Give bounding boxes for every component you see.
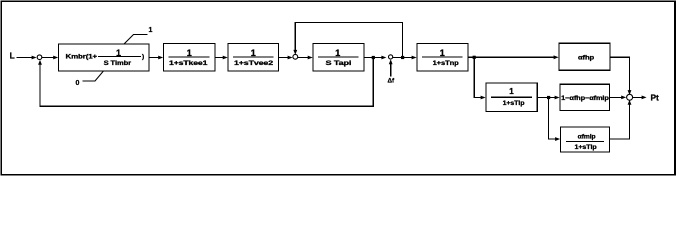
svg-text:1+sTvee2: 1+sTvee2 xyxy=(234,60,274,67)
svg-text:S Tapi: S Tapi xyxy=(326,60,352,67)
bypass wire upper loop to S2 xyxy=(295,22,402,57)
wire block INT to summer S3 xyxy=(364,57,383,59)
block MID 1-afhp-afmlp xyxy=(560,84,610,110)
summer S3 xyxy=(389,55,393,59)
wire S1 to block PI xyxy=(42,57,55,59)
svg-text:S Timbr: S Timbr xyxy=(104,60,132,67)
block PI Kmbr(1+1/(S Timbr)) xyxy=(59,44,150,71)
summer S4 xyxy=(627,94,633,100)
junction dot C xyxy=(473,56,476,59)
wire block IP to block MID xyxy=(537,97,556,99)
junction dot B xyxy=(401,56,404,59)
wire block LP to summer S4 xyxy=(610,104,630,139)
wire S2 to block INT xyxy=(298,57,309,59)
block LP afmlp/(1+sTlp) xyxy=(561,127,610,152)
upper limit marker, label 1 xyxy=(124,27,153,44)
svg-text:L: L xyxy=(10,51,15,61)
svg-text:αfmlp: αfmlp xyxy=(578,134,596,141)
svg-text:Kmbr(1+: Kmbr(1+ xyxy=(66,53,98,60)
wire block T2 to summer S2 xyxy=(279,57,290,59)
node Df input arrow xyxy=(390,63,392,76)
lower limit marker, label 0 xyxy=(76,71,104,87)
junction dot D xyxy=(547,96,550,99)
border frame xyxy=(0,0,675,175)
wire block AFHP to summer S4 xyxy=(610,57,630,90)
block T2 1/(1+sTvee2) xyxy=(228,44,279,72)
svg-text:1+sTkee1: 1+sTkee1 xyxy=(169,60,208,67)
junction dot A xyxy=(372,56,375,59)
svg-text:1−αfhp−αfmlp: 1−αfhp−αfmlp xyxy=(561,95,609,102)
wire S3 to block HP xyxy=(393,57,413,59)
svg-text:1+sTlp: 1+sTlp xyxy=(503,100,525,107)
svg-text:1+sTlp: 1+sTlp xyxy=(575,144,597,151)
wire block T1 to block T2 xyxy=(215,57,224,59)
svg-text:1: 1 xyxy=(116,48,121,58)
summer S1 xyxy=(37,55,42,60)
wire block MID to summer S4 xyxy=(610,96,623,98)
svg-text:1+sTnp: 1+sTnp xyxy=(433,60,459,67)
svg-text:Pt: Pt xyxy=(651,92,660,102)
svg-text:αfhp: αfhp xyxy=(578,55,594,62)
svg-text:1: 1 xyxy=(149,27,153,34)
block T1 1/(1+sTkee1) xyxy=(164,44,216,72)
wire junction C down to block IP xyxy=(474,57,482,97)
block IP 1/(1+sTlp) xyxy=(486,83,537,112)
wire block HP to block AFHP xyxy=(468,56,555,58)
svg-text:0: 0 xyxy=(76,80,80,87)
svg-text:Δf: Δf xyxy=(388,77,396,84)
block AFHP afhp xyxy=(559,43,610,70)
svg-text:1: 1 xyxy=(509,87,514,96)
block HP 1/(1+sTnp) xyxy=(417,43,468,71)
feedback wire lower loop to S1 xyxy=(40,58,373,107)
wire block PI to block T1 xyxy=(149,57,160,59)
summer S2 xyxy=(293,54,298,59)
wire junction D down to block LP xyxy=(549,98,557,140)
wire S4 to output Pt xyxy=(633,96,642,98)
block INT 1/(S Tapi) xyxy=(313,43,364,71)
svg-text:): ) xyxy=(142,53,144,60)
wire L to summer S1 xyxy=(17,57,34,59)
